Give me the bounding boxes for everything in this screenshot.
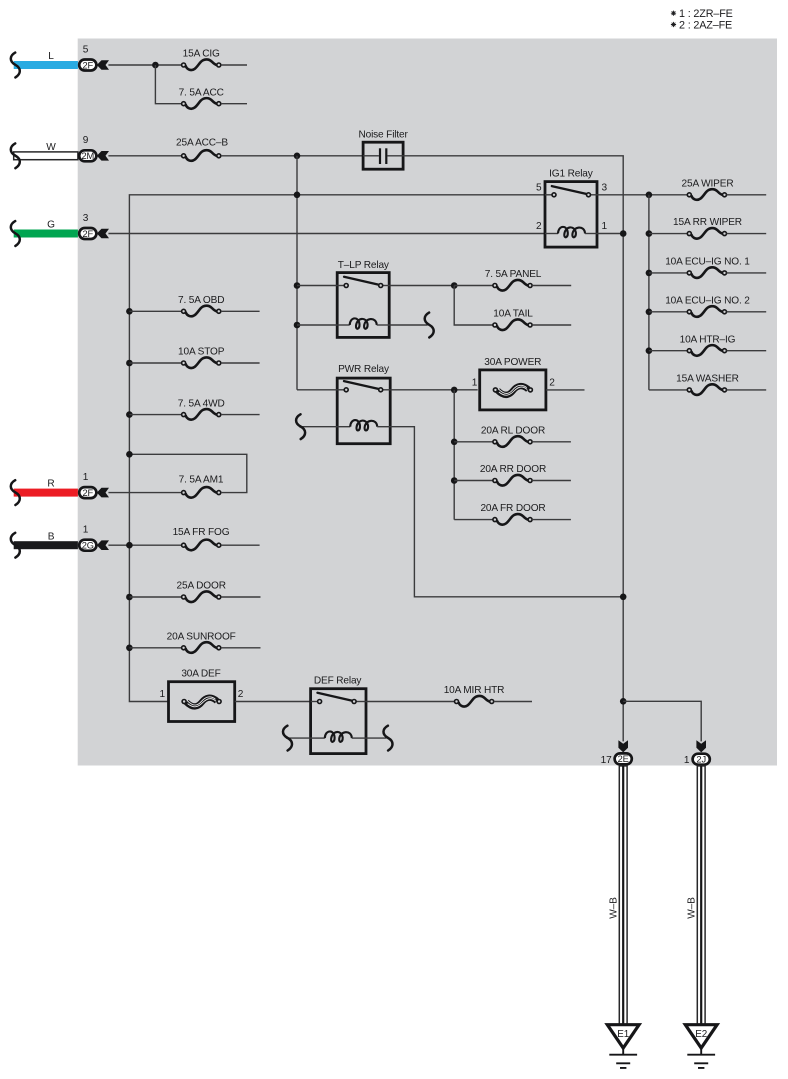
T-LP relay U2	[337, 273, 389, 338]
svg-text:2F: 2F	[83, 60, 94, 70]
fuse 10A HTR–IG	[687, 345, 726, 356]
svg-text:2F: 2F	[83, 229, 94, 239]
junction right bus / 10A ECU–IG NO. 2	[646, 309, 653, 316]
junction PWR coil ground / ground bus	[620, 594, 627, 601]
svg-text:9: 9	[83, 135, 89, 146]
wire after 10A STOP	[221, 362, 260, 364]
svg-text:G: G	[47, 220, 55, 231]
wire: IG1 pin5 feed line y=194.8	[129, 195, 545, 702]
svg-text:1: 1	[472, 378, 478, 389]
wire: branch to fuse 7.5A PANEL	[454, 285, 493, 287]
wire: branch to connector 2J	[623, 701, 701, 741]
junction left bus / 25A DOOR	[126, 594, 133, 601]
wire L (blue) to connector 2F	[14, 61, 78, 69]
svg-text:2F: 2F	[83, 488, 94, 498]
wire: bus to fuse 10A ECU–IG NO. 1	[649, 272, 687, 274]
junction coil/ground bus	[620, 230, 627, 237]
wire after MIR HTR	[494, 701, 532, 703]
svg-text:5: 5	[83, 44, 89, 55]
fuse 20A SUNROOF	[182, 642, 221, 653]
wire: bus to fuse 10A ECU–IG NO. 2	[649, 311, 687, 313]
wire: 2F to IG1 relay pin 2	[108, 233, 545, 235]
wire-break squiggle (R)	[11, 480, 20, 505]
fuse 25A ACC-B	[182, 150, 221, 161]
fuse 15A FR FOG	[182, 540, 221, 551]
svg-text:1: 1	[160, 689, 166, 700]
svg-text:20A RR DOOR: 20A RR DOOR	[480, 464, 546, 475]
fusible link 30A POWER	[480, 370, 546, 410]
wire after FR FOG	[221, 544, 260, 546]
junction PANEL/TAIL branch	[451, 282, 458, 289]
wire after 20A RR DOOR	[532, 480, 571, 482]
fuse 10A ECU–IG NO. 2	[687, 306, 726, 317]
svg-text:1: 1	[684, 755, 690, 766]
fuse 10A MIR HTR	[455, 696, 494, 707]
wire: branch down to 7.5A ACC	[155, 65, 181, 104]
wire W-B from 2E to E1	[619, 766, 627, 1025]
svg-text:15A CIG: 15A CIG	[183, 49, 220, 60]
svg-text:1: 1	[602, 221, 608, 232]
junction right bus / 15A RR WIPER	[646, 230, 653, 237]
wire after TAIL	[532, 324, 571, 326]
wire after 20A RL DOOR	[532, 441, 571, 443]
svg-text:E2: E2	[695, 1029, 707, 1040]
wire after 7.5A ACC	[221, 103, 247, 105]
wire-break squiggle (W)	[11, 143, 20, 168]
svg-text:25A ACC–B: 25A ACC–B	[176, 137, 228, 148]
junction left bus / 20A SUNROOF	[126, 645, 133, 652]
wire W (white) to connector 2M	[14, 152, 78, 160]
wire after 30A POWER	[546, 389, 585, 391]
right bus vertical x=648.9	[648, 195, 650, 390]
junction right bus / 10A HTR–IG	[646, 347, 653, 354]
fuse 10A TAIL	[493, 319, 532, 330]
junction left bus / AM1 loop	[126, 451, 133, 458]
wire: IG1 pin1 (coil) to ground bus	[597, 233, 623, 235]
wire B (black) to connector 2G	[14, 541, 78, 549]
noise filter NF1	[363, 142, 403, 169]
wire after 20A SUNROOF	[221, 647, 261, 649]
wire: 2F to CIG/ACC branch	[108, 64, 181, 66]
svg-text:10A STOP: 10A STOP	[178, 347, 225, 358]
svg-text:30A POWER: 30A POWER	[484, 357, 541, 368]
fuse 7.5A PANEL	[493, 280, 532, 291]
svg-text:2E: 2E	[618, 754, 629, 764]
connector 2J pin 1	[693, 754, 710, 765]
fuse 10A ECU–IG NO. 1	[687, 267, 726, 278]
svg-text:15A FR FOG: 15A FR FOG	[173, 527, 230, 538]
POWER bus vertical x=454.2	[453, 390, 455, 520]
svg-text:20A RL DOOR: 20A RL DOOR	[481, 425, 545, 436]
wire-break squiggle (T-LP coil)	[425, 313, 434, 338]
fuse 7. 5A OBD	[182, 306, 221, 317]
wire: bus to fuse 7. 5A OBD	[129, 310, 181, 312]
junction ACC-B / mid bus	[294, 153, 301, 160]
wire: break to DEF coil	[286, 737, 311, 739]
wire after 7. 5A 4WD	[221, 414, 260, 416]
wire after 25A DOOR	[221, 596, 261, 598]
fuse 20A FR DOOR	[493, 514, 532, 525]
wire: 2F to fuse 7.5A AM1	[108, 492, 181, 494]
fuse 15A RR WIPER	[687, 228, 726, 239]
wire: 30A DEF to DEF relay	[235, 701, 311, 703]
fuse 25A DOOR	[182, 591, 221, 602]
wire G (green) to connector 2F	[14, 230, 78, 238]
wire-break squiggle (PWR coil left)	[296, 414, 305, 439]
fuse 7. 5A 4WD	[182, 409, 221, 420]
junction pin3/right bus	[646, 192, 653, 199]
wire: AM1 loop to left bus	[129, 454, 246, 492]
mid bus vertical x=297	[296, 156, 298, 390]
svg-text:5: 5	[536, 183, 542, 194]
svg-text:10A ECU–IG NO. 1: 10A ECU–IG NO. 1	[665, 257, 750, 268]
wire after 10A ECU–IG NO. 1	[727, 272, 767, 274]
wire R (red) to connector 2F	[14, 489, 78, 497]
junction mid bus / T-LP coil	[294, 322, 301, 329]
wire: bus to fuse 25A DOOR	[129, 596, 181, 598]
fuse 15A CIG	[182, 59, 221, 70]
svg-text:15A RR WIPER: 15A RR WIPER	[673, 217, 742, 228]
arrow into 2F (R)	[97, 488, 109, 498]
svg-text:17: 17	[601, 755, 612, 766]
junction CIG/ACC branch	[152, 62, 159, 69]
IG1 relay U1	[545, 182, 597, 248]
svg-text:Noise Filter: Noise Filter	[358, 130, 408, 141]
wire: break to PWR coil	[299, 426, 337, 428]
ground E2	[685, 1025, 717, 1068]
svg-text:1 : 2ZR–FE: 1 : 2ZR–FE	[679, 8, 733, 20]
wire after 20A FR DOOR	[532, 519, 571, 521]
ground E1	[607, 1025, 639, 1068]
fuse 10A STOP	[182, 357, 221, 368]
wire after 15A WASHER	[727, 389, 767, 391]
wire: bus to fuse 7. 5A 4WD	[129, 414, 181, 416]
wire: bus to fuse 20A FR DOOR	[454, 519, 493, 521]
svg-text:10A TAIL: 10A TAIL	[493, 309, 533, 320]
svg-text:1: 1	[83, 472, 89, 483]
arrow into 2M	[97, 151, 109, 161]
wire after 7. 5A OBD	[221, 310, 260, 312]
wire-break squiggle (L)	[11, 53, 20, 78]
junction left bus / 10A STOP	[126, 360, 133, 367]
svg-text:W: W	[46, 142, 56, 153]
junction ground bus / 2J branch	[620, 698, 627, 705]
svg-text:2J: 2J	[696, 755, 706, 765]
connector 2E pin 17	[615, 753, 632, 764]
svg-text:15A WASHER: 15A WASHER	[676, 374, 739, 385]
svg-text:7. 5A AM1: 7. 5A AM1	[179, 475, 224, 486]
fuse 25A WIPER	[687, 189, 726, 200]
svg-text:2 : 2AZ–FE: 2 : 2AZ–FE	[679, 19, 732, 31]
wire: T-LP switch out	[389, 285, 452, 287]
junction left bus / 7. 5A OBD	[126, 308, 133, 315]
svg-text:2: 2	[549, 378, 555, 389]
svg-text:2G: 2G	[82, 541, 94, 551]
svg-text:10A ECU–IG NO. 2: 10A ECU–IG NO. 2	[665, 295, 750, 306]
svg-text:7. 5A ACC: 7. 5A ACC	[179, 87, 224, 98]
svg-text:2M: 2M	[81, 151, 94, 161]
wire after 10A ECU–IG NO. 2	[727, 311, 767, 313]
wire: DEF relay to 10A MIR HTR	[366, 701, 455, 703]
svg-text:2: 2	[238, 689, 244, 700]
svg-text:1: 1	[83, 525, 89, 536]
wire-break squiggle (DEF coil left)	[283, 726, 292, 751]
wire-break squiggle (B)	[11, 533, 20, 558]
wire: bus to fuse 10A STOP	[129, 362, 181, 364]
wire: mid bus to T-LP switch	[297, 285, 337, 287]
wire: 2M to fuse 25A ACC-B	[108, 155, 181, 157]
wire: bus to fuse 20A RR DOOR	[454, 480, 493, 482]
svg-text:L: L	[48, 51, 54, 62]
wire: bus to fuse 20A SUNROOF	[129, 647, 181, 649]
svg-text:B: B	[48, 531, 55, 542]
grey background panel	[78, 39, 777, 766]
svg-text:7. 5A 4WD: 7. 5A 4WD	[178, 398, 225, 409]
svg-text:DEF Relay: DEF Relay	[314, 675, 363, 686]
wire: 2G to fuse 15A FR FOG	[108, 544, 181, 546]
fuse 7.5A ACC	[182, 98, 221, 109]
wire: DEF coil out to break	[366, 737, 386, 739]
junction left bus / 7. 5A 4WD	[126, 411, 133, 418]
wire: bus to fuse 15A RR WIPER	[649, 233, 687, 235]
wire: bus to fuse 15A WASHER	[649, 389, 687, 391]
fuse 20A RR DOOR	[493, 475, 532, 486]
svg-text:PWR Relay: PWR Relay	[338, 364, 390, 375]
svg-text:7. 5A PANEL: 7. 5A PANEL	[485, 269, 542, 280]
PWR relay U3	[337, 378, 390, 444]
svg-text:2: 2	[536, 221, 542, 232]
wire after 15A RR WIPER	[727, 233, 767, 235]
note *1 : 2ZR-FE	[671, 8, 733, 20]
svg-text:IG1 Relay: IG1 Relay	[549, 169, 594, 180]
wire W-B from 2J to E2	[697, 766, 705, 1025]
fusible link 30A DEF	[169, 682, 235, 722]
svg-text:30A DEF: 30A DEF	[181, 668, 220, 679]
wire: branch down to 10A TAIL	[454, 286, 493, 326]
svg-text:20A FR DOOR: 20A FR DOOR	[480, 503, 545, 514]
wire-break squiggle (DEF coil right)	[383, 726, 392, 751]
connector 2G pin 1	[79, 540, 96, 551]
arrow into 2F	[97, 60, 109, 70]
wire: PWR switch out	[390, 389, 478, 391]
svg-text:T–LP Relay: T–LP Relay	[338, 260, 390, 271]
arrow into 2J	[696, 740, 706, 752]
junction POWER bus / 20A RL DOOR	[451, 439, 458, 446]
wire after 10A HTR–IG	[727, 350, 767, 352]
connector 2F pin 3	[79, 228, 96, 239]
wire: mid bus to T-LP coil	[297, 324, 337, 326]
svg-text:7. 5A OBD: 7. 5A OBD	[178, 295, 224, 306]
arrow into 2F (G)	[97, 229, 109, 239]
wire: bus to fuse 10A HTR–IG	[649, 350, 687, 352]
junction POWER bus / 20A RR DOOR	[451, 477, 458, 484]
wire after PANEL	[532, 285, 571, 287]
svg-text:10A HTR–IG: 10A HTR–IG	[680, 334, 736, 345]
svg-text:25A DOOR: 25A DOOR	[177, 581, 226, 592]
note *2 : 2AZ-FE	[671, 19, 732, 31]
wire after 25A WIPER	[727, 194, 767, 196]
wire: T-LP coil out to break	[389, 324, 427, 326]
svg-text:3: 3	[83, 213, 89, 224]
fuse 15A WASHER	[687, 384, 726, 395]
connector 2M pin 9	[79, 150, 96, 161]
fuse 20A RL DOOR	[493, 436, 532, 447]
fuse 7.5A AM1	[182, 487, 221, 498]
junction left bus / FR FOG	[126, 542, 133, 549]
wire: IG1 pin3 to right fuse bus	[597, 194, 687, 196]
connector 2F pin 1	[79, 487, 96, 498]
wire: ACC-B fuse to noise filter	[221, 155, 363, 157]
wire: mid bus corner into PWR switch	[297, 389, 337, 391]
svg-text:W–B: W–B	[687, 897, 698, 919]
junction mid-bus / IG1 feed	[294, 192, 301, 199]
svg-text:W–B: W–B	[609, 897, 620, 919]
wire: PWR coil out to ground bus	[390, 427, 621, 597]
arrow into 2E	[618, 740, 628, 752]
wire: bus to fuse 20A RL DOOR	[454, 441, 493, 443]
svg-text:E1: E1	[617, 1029, 629, 1040]
svg-text:3: 3	[602, 183, 608, 194]
wire-break squiggle (G)	[11, 221, 20, 246]
svg-text:R: R	[47, 479, 54, 490]
junction right bus / 10A ECU–IG NO. 1	[646, 270, 653, 277]
connector 2F pin 5	[79, 60, 96, 71]
wire after 15A CIG	[221, 64, 247, 66]
svg-text:20A SUNROOF: 20A SUNROOF	[167, 632, 236, 643]
svg-text:10A MIR HTR: 10A MIR HTR	[444, 685, 505, 696]
junction POWER bus	[451, 387, 458, 394]
arrow into 2G	[97, 540, 109, 550]
DEF relay U4	[311, 689, 366, 754]
wire: noise filter to right, down to coil of IG1	[403, 156, 623, 742]
junction mid bus / T-LP switch	[294, 282, 301, 289]
svg-text:25A WIPER: 25A WIPER	[682, 178, 734, 189]
